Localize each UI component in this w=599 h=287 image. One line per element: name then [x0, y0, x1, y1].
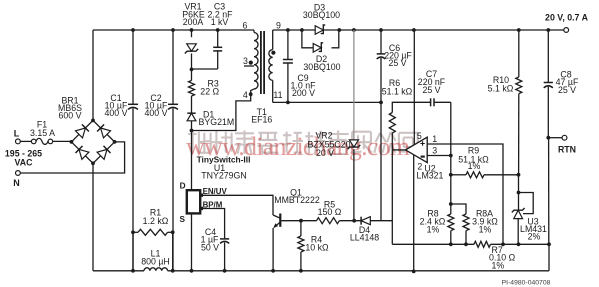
node S bottom rail [190, 269, 194, 273]
svg-text:1.2 kΩ: 1.2 kΩ [143, 216, 169, 226]
wire opamp -in pin3 [427, 155, 451, 157]
capacitor C9 [283, 60, 316, 99]
label pin 6 [243, 20, 248, 30]
wire C2 vertical [172, 30, 174, 271]
wire VR1 branch upper [191, 30, 193, 37]
svg-text:RTN: RTN [558, 145, 576, 155]
node R4 junction [299, 219, 303, 223]
wire feedback vertical [450, 102, 452, 214]
svg-text:51.1 kΩ: 51.1 kΩ [382, 87, 413, 97]
svg-text:D: D [180, 181, 186, 190]
node C9 rail [286, 28, 290, 32]
wire R10 upper [518, 30, 520, 77]
resistor R1 parallel [131, 208, 175, 271]
label S pin [180, 215, 186, 224]
node C8 rail [546, 28, 550, 32]
wire opamp V- pin2 [413, 154, 415, 271]
wire C8 to sense line [548, 138, 550, 245]
bridge diode lower-left [76, 146, 89, 159]
svg-text:LL4148: LL4148 [350, 233, 379, 243]
wire R10 lower [518, 94, 520, 175]
svg-text:PI-4980-040708: PI-4980-040708 [502, 279, 551, 286]
bridge rectifier BR1 frame [71, 120, 114, 163]
node opamp V- rail [412, 270, 416, 274]
wire sense line left [392, 243, 474, 245]
wire Q1 emitter [272, 228, 274, 271]
svg-text:3: 3 [432, 146, 437, 156]
node sense to RTN riser [547, 242, 551, 246]
svg-text:22 Ω: 22 Ω [200, 86, 219, 96]
capacitor C2 [145, 93, 179, 118]
svg-text:L: L [14, 129, 20, 139]
terminal 20V output [545, 12, 589, 32]
svg-text:3.15 A: 3.15 A [30, 128, 55, 138]
node D2 branch right [337, 28, 341, 32]
node drain [190, 129, 194, 133]
svg-text:200 V: 200 V [292, 88, 315, 98]
wire pin11 rail [273, 101, 381, 103]
label pin 3 [243, 56, 248, 66]
svg-text:EF16: EF16 [251, 115, 272, 125]
svg-text:5.1 kΩ: 5.1 kΩ [488, 84, 514, 94]
svg-text:3: 3 [243, 56, 248, 66]
capacitor C6 [377, 43, 413, 68]
label pin 1 [432, 134, 437, 144]
wire C6 vertical [380, 30, 382, 102]
wire R6 to output node [391, 133, 393, 244]
label BP/M [203, 201, 223, 210]
wire C9 vertical [287, 30, 289, 102]
label TNY279GN [201, 170, 246, 180]
transformer pin 3 tap stub [244, 65, 254, 67]
resistor R3 [189, 79, 220, 97]
label pin 3 opamp [432, 146, 437, 156]
label EN/UV [203, 187, 228, 196]
node R8A sense [464, 242, 468, 246]
wire Q1 base [281, 220, 316, 222]
svg-text:10 kΩ: 10 kΩ [305, 243, 329, 253]
svg-text:20 V: 20 V [316, 148, 334, 158]
node VR2 rail [352, 28, 356, 32]
wire C6 line down to D4 anode [380, 102, 382, 220]
svg-text:BYG21M: BYG21M [199, 117, 235, 127]
watermark gray company text [188, 131, 417, 154]
wire bridge bottom to bottom rail [92, 163, 94, 270]
inductor L1 [141, 249, 170, 271]
transistor Q1 [273, 187, 320, 228]
wire L to fuse [20, 140, 31, 142]
wire U3 ref loop [519, 193, 534, 214]
transformer T1 secondary winding [269, 50, 273, 81]
label TinySwitch [197, 154, 251, 164]
node RTN junction [546, 136, 550, 140]
wire pin9 riser [272, 30, 274, 50]
wire sense line right [491, 243, 550, 245]
svg-text:50 V: 50 V [201, 242, 219, 252]
svg-text:30BQ100: 30BQ100 [303, 62, 340, 72]
node R8A branch [449, 202, 453, 206]
wire EN/UV to Q1 collector [203, 195, 273, 215]
node secondary polarity dot [271, 51, 275, 55]
node R8 sense [449, 242, 453, 246]
wire N to bridge right vertex [20, 142, 124, 173]
bridge diode upper-left [76, 124, 89, 137]
label BR1 [58, 96, 82, 121]
node L1 right [171, 269, 175, 273]
wire drain to pin4 [192, 89, 255, 131]
node C2 rail [171, 28, 175, 32]
node VR1 rail [190, 28, 194, 32]
wire U1 drain pin [191, 131, 193, 191]
wire R8A branch [451, 204, 466, 214]
wire bottom rail left [93, 270, 144, 272]
node C6 rail [379, 28, 383, 32]
node opamp V+ rail [412, 28, 416, 32]
svg-text:200A: 200A [183, 17, 204, 27]
zener VR1 [182, 2, 205, 54]
wire D2 branch [302, 30, 339, 48]
svg-text:1%: 1% [479, 224, 492, 234]
wire bridge top to rail [92, 30, 94, 120]
capacitor C1 [105, 93, 139, 118]
label pin 9 [276, 20, 281, 30]
wire C4 bottom [224, 242, 226, 270]
svg-text:TNY279GN: TNY279GN [201, 170, 246, 180]
label 195-265 VAC [5, 149, 42, 168]
zener VR2 [307, 130, 360, 158]
wire pin11 riser [272, 80, 274, 102]
resistor R5 [317, 199, 342, 223]
wire R6 top jog [392, 102, 451, 112]
resistor R8A [463, 208, 498, 234]
node C9 return [286, 101, 290, 105]
node R9 left [449, 173, 453, 177]
label pin 11 [273, 90, 282, 100]
node R4 rail [299, 269, 303, 273]
svg-text:400 V: 400 V [145, 108, 168, 118]
wire VR2 upper (gray) [353, 30, 355, 140]
wire bottom rail right [168, 270, 549, 272]
watermark red url text [186, 132, 410, 161]
node L1 left [131, 269, 135, 273]
resistor R7 [474, 241, 516, 270]
wire U3 cathode [518, 175, 520, 210]
wire BP/M to C4 [203, 209, 225, 239]
capacitor C3 [208, 2, 234, 51]
node U3 ref junction [517, 191, 521, 195]
svg-text:VAC: VAC [15, 158, 34, 168]
wire VR2 lower [353, 149, 355, 220]
svg-text:LM321: LM321 [417, 171, 444, 181]
wire C3 vertical [192, 30, 218, 69]
svg-text:25 V: 25 V [558, 85, 576, 95]
resistor R8 [420, 208, 454, 234]
diode D2 [303, 43, 340, 72]
node clamp junction [190, 68, 194, 72]
label pin 5 [417, 131, 422, 141]
shunt regulator U3 [512, 208, 547, 242]
svg-text:MMBT2222: MMBT2222 [274, 195, 320, 205]
wire C1 vertical [132, 30, 134, 271]
svg-text:1: 1 [432, 134, 437, 144]
node R9 right [517, 173, 521, 177]
svg-text:1%: 1% [427, 224, 440, 234]
wire RTN stub [548, 137, 562, 139]
svg-text:9: 9 [276, 20, 281, 30]
node C1 rail [131, 28, 135, 32]
capacitor C7 [418, 69, 446, 106]
svg-text:800 µH: 800 µH [141, 257, 170, 267]
wire sense riser to bottom rail [548, 244, 550, 270]
svg-text:4: 4 [243, 90, 248, 100]
label U1 [214, 163, 225, 173]
node C6 return [379, 101, 383, 105]
terminal L [14, 129, 21, 144]
terminal N [13, 171, 20, 188]
label pin 2 [417, 162, 422, 172]
node U3 sense [517, 242, 521, 246]
svg-text:150 Ω: 150 Ω [318, 207, 342, 217]
node -in junction [449, 154, 453, 158]
wire R3 to D1 [191, 96, 193, 113]
node pin4 [249, 92, 253, 96]
svg-text:600 V: 600 V [59, 111, 82, 121]
svg-text:20 V, 0.7 A: 20 V, 0.7 A [545, 12, 589, 22]
diode D4 [350, 217, 379, 243]
resistor R10 [488, 75, 522, 94]
node C4 rail [223, 269, 227, 273]
terminal RTN [558, 135, 576, 154]
svg-text:2%: 2% [528, 232, 541, 242]
label T1 [251, 107, 272, 125]
transformer core [261, 31, 264, 94]
svg-text:6: 6 [243, 20, 248, 30]
fuse F1 [30, 120, 55, 145]
diode D1 [187, 110, 234, 128]
op-amp U2 [406, 137, 444, 181]
capacitor C8 [544, 70, 579, 95]
capacitor C4 [201, 227, 230, 252]
svg-text:1%: 1% [492, 260, 505, 270]
svg-text:25 V: 25 V [422, 85, 440, 95]
svg-text:25 V: 25 V [388, 58, 406, 68]
label PI-4980-040708 [502, 279, 551, 286]
svg-text:5: 5 [417, 131, 422, 141]
svg-text:N: N [13, 178, 20, 188]
wire opamp output [392, 149, 406, 151]
wire primary top rail [93, 29, 254, 31]
wire opamp V+ pin5 [413, 30, 415, 146]
label pin 4 [243, 90, 248, 100]
wire D1 to drain node [191, 121, 193, 131]
svg-text:1%: 1% [468, 161, 481, 171]
node R10 rail [517, 28, 521, 32]
bridge vertex nodes [70, 119, 117, 166]
bridge diode lower-right [97, 146, 110, 159]
diode D3 [303, 2, 340, 34]
svg-text:30BQ100: 30BQ100 [303, 10, 340, 20]
node pin3 tap [249, 61, 253, 65]
node D2 branch left [300, 28, 304, 32]
wire U1 source pin [191, 213, 193, 270]
node Q1 emitter rail [271, 269, 275, 273]
transformer T1 primary winding [254, 33, 258, 89]
wire R8 bottom [450, 231, 452, 245]
wire rail to pin6 [253, 30, 255, 33]
svg-text:S: S [180, 215, 186, 224]
resistor R9 [451, 146, 519, 178]
svg-text:400 V: 400 V [105, 108, 128, 118]
wire R8A bottom [465, 231, 467, 245]
wire U3 anode [517, 219, 519, 245]
resistor R4 [298, 221, 329, 271]
wire VR1 to node [191, 54, 193, 81]
wire R5 to D4 [339, 220, 361, 222]
wire fuse to bridge [53, 140, 72, 142]
bridge diode upper-right [97, 124, 110, 137]
U1 package TNY279GN [187, 190, 203, 213]
node VR2 base junction [352, 219, 356, 223]
label D pin [180, 181, 186, 190]
wire C8 upper [547, 30, 549, 138]
svg-text:1 kV: 1 kV [211, 17, 229, 27]
svg-text:11: 11 [273, 90, 282, 100]
node +in sense [501, 242, 505, 246]
wire secondary top rail [273, 29, 566, 31]
node C3 rail [216, 28, 220, 32]
wire opamp +in pin1 [427, 144, 503, 244]
resistor R6 [382, 78, 413, 133]
wire D4 anode [370, 220, 392, 222]
